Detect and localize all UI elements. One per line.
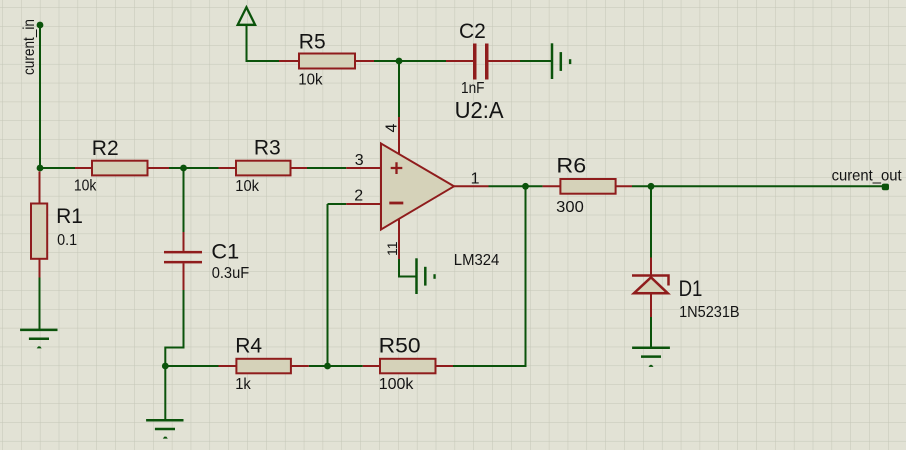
svg-text:0.3uF: 0.3uF <box>212 265 250 282</box>
svg-text:300: 300 <box>556 199 584 216</box>
svg-text:R4: R4 <box>235 335 262 358</box>
svg-text:R6: R6 <box>556 155 586 178</box>
svg-text:R3: R3 <box>254 137 281 160</box>
svg-text:10k: 10k <box>298 71 323 88</box>
svg-text:10k: 10k <box>74 178 97 195</box>
svg-text:U2:A: U2:A <box>455 97 505 123</box>
svg-text:LM324: LM324 <box>454 252 500 269</box>
svg-text:3: 3 <box>355 152 364 169</box>
svg-text:C2: C2 <box>459 20 486 43</box>
svg-text:C1: C1 <box>211 240 239 263</box>
svg-text:2: 2 <box>354 188 363 205</box>
svg-text:1nF: 1nF <box>461 80 485 97</box>
svg-text:D1: D1 <box>679 276 703 301</box>
svg-text:1: 1 <box>471 170 480 187</box>
svg-text:1k: 1k <box>235 376 252 393</box>
svg-text:curent_out: curent_out <box>832 167 903 184</box>
svg-text:100k: 100k <box>379 376 415 393</box>
svg-text:R5: R5 <box>299 30 326 53</box>
svg-text:curent_in: curent_in <box>21 19 38 75</box>
svg-text:11: 11 <box>384 241 400 256</box>
svg-text:1N5231B: 1N5231B <box>679 304 740 321</box>
svg-text:10k: 10k <box>235 178 260 195</box>
svg-text:0.1: 0.1 <box>57 232 77 249</box>
svg-text:R50: R50 <box>379 334 421 357</box>
svg-text:4: 4 <box>384 124 401 133</box>
svg-text:R1: R1 <box>56 205 83 228</box>
svg-text:R2: R2 <box>92 137 119 160</box>
